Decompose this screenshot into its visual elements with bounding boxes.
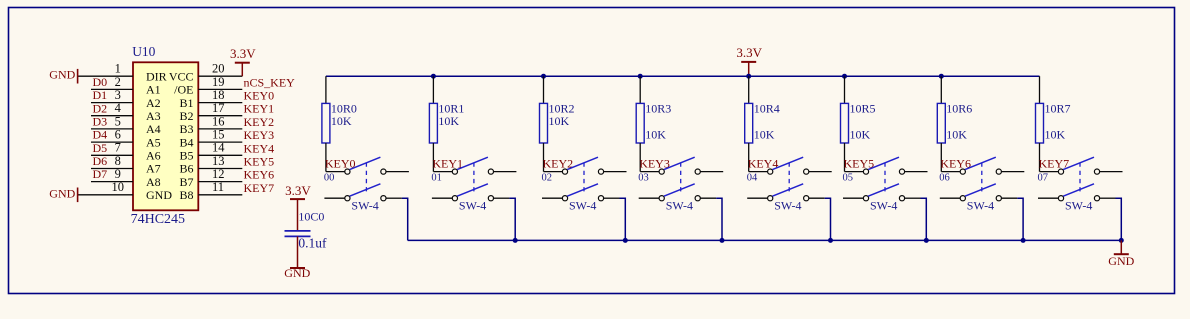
U10 pin 1 (DIR) wire + number [78,62,167,84]
svg-text:KEY2: KEY2 [244,115,275,129]
net label KEY7 at switch [1039,156,1070,170]
svg-text:KEY1: KEY1 [244,102,275,116]
comment SW-4 of switch S2 [569,198,596,212]
svg-text:10K: 10K [438,114,459,128]
switch S7 designator 07 [1038,173,1049,184]
ground GND port at capacitor C0 [284,236,310,280]
junction on ground bus at column 4 [828,238,833,243]
comment SW-4 of switch S1 [459,198,486,212]
wire: switch S3 to ground bus [716,198,722,240]
U10 pin 14 (B5) wire + number [179,141,242,163]
svg-text:KEY5: KEY5 [244,155,275,169]
net label KEY5 (at U10 pin 13) [244,155,275,169]
U10 pin 20 (VCC) wire + number [169,62,242,84]
junction on ground bus at column 2 [623,238,628,243]
svg-text:GND: GND [284,266,310,280]
svg-text:A7: A7 [146,162,161,176]
svg-text:DIR: DIR [146,69,167,83]
svg-text:9: 9 [115,167,121,181]
svg-text:3: 3 [115,88,121,102]
power 3.3V port at capacitor C0 [285,183,311,231]
resistor R2 (10R2) [540,76,548,171]
svg-text:3.3V: 3.3V [736,45,762,60]
svg-text:KEY6: KEY6 [244,168,275,182]
comment SW-4 of switch S6 [967,198,994,212]
value label 10K of R7 [1045,128,1066,142]
svg-text:D1: D1 [93,88,108,102]
comment SW-4 of switch S4 [774,198,801,212]
net label D4 [93,128,108,142]
ground GND port at bus right end [1108,240,1134,268]
value label 10K of R1 [438,114,459,128]
U10 pin 6 (A5) wire + number [91,128,161,150]
svg-text:SW-4: SW-4 [774,198,801,212]
svg-text:D7: D7 [93,167,108,181]
comment 74HC245 [131,212,185,227]
svg-text:SW-4: SW-4 [569,198,596,212]
svg-text:A3: A3 [146,109,161,123]
capacitor C0 (10C0) plates [285,231,311,237]
comment SW-4 of switch S0 [351,198,378,212]
svg-text:6: 6 [115,128,121,142]
svg-text:B8: B8 [179,188,193,202]
U10 pin 5 (A4) wire + number [91,114,161,136]
value label 10K of R5 [850,128,871,142]
designator label 10C0 [298,210,324,224]
net label nCS_KEY [244,75,296,89]
switch S5 (SW-4 key button) [843,157,928,201]
U10 pin 8 (A7) wire + number [91,154,161,176]
svg-text:7: 7 [115,141,121,155]
svg-text:18: 18 [212,88,225,102]
svg-text:10R7: 10R7 [1045,102,1071,116]
svg-text:13: 13 [212,154,225,168]
svg-text:04: 04 [747,173,758,184]
svg-text:10K: 10K [645,128,666,142]
svg-text:SW-4: SW-4 [967,198,994,212]
junction on rail at column 4 [746,74,751,79]
switch S2 (SW-4 key button) [542,157,627,201]
svg-text:1: 1 [115,62,121,76]
svg-text:B4: B4 [179,135,193,149]
svg-text:B3: B3 [179,122,193,136]
U10 pin 7 (A6) wire + number [91,141,161,163]
svg-text:16: 16 [212,114,225,128]
svg-text:A8: A8 [146,175,161,189]
svg-text:GND: GND [146,188,172,202]
net label D0 [93,75,108,89]
svg-text:D2: D2 [93,101,108,115]
switch S3 designator 03 [638,173,649,184]
switch S1 (SW-4 key button) [432,157,517,201]
designator label 10R6 [946,102,972,116]
svg-text:SW-4: SW-4 [870,198,897,212]
U10 pin 10 (GND) wire + number [78,180,173,202]
svg-text:A5: A5 [146,135,161,149]
junction on ground bus at column 5 [924,238,929,243]
svg-text:10: 10 [112,180,125,194]
junction on rail at column 1 [431,74,436,79]
U10 pin 3 (A2) wire + number [91,88,161,110]
power 3.3V port at U10 pin 20 [230,46,256,76]
U10 pin 17 (B2) wire + number [179,101,242,123]
wire: switch S0 to ground bus [402,198,408,240]
svg-text:KEY4: KEY4 [244,141,275,155]
net label D1 [93,88,108,102]
svg-text:SW-4: SW-4 [351,198,378,212]
comment SW-4 of switch S5 [870,198,897,212]
designator label 10R5 [850,102,876,116]
designator label 10R0 [331,102,357,116]
svg-text:3.3V: 3.3V [230,46,256,61]
ground GND port at U10 pin 1 [49,68,77,84]
U10 pin 13 (B6) wire + number [179,154,242,176]
svg-text:4: 4 [115,101,122,115]
designator label 10R3 [645,102,671,116]
net label KEY7 (at U10 pin 11) [244,181,275,195]
value label 0.1uf [298,236,327,251]
svg-text:D4: D4 [93,128,108,142]
svg-text:01: 01 [431,173,442,184]
svg-text:B7: B7 [179,175,193,189]
net label D7 [93,167,108,181]
svg-text:A2: A2 [146,96,161,110]
net label D6 [93,154,108,168]
svg-text:0.1uf: 0.1uf [298,236,327,251]
resistor R0 (10R0) [322,76,330,171]
svg-text:nCS_KEY: nCS_KEY [244,75,296,89]
svg-text:KEY7: KEY7 [244,181,275,195]
comment SW-4 of switch S7 [1065,198,1092,212]
svg-text:A1: A1 [146,83,161,97]
svg-text:B1: B1 [179,96,193,110]
value label 10K of R6 [946,128,967,142]
junction on ground bus at column 6 [1021,238,1026,243]
net label KEY0 at switch [325,156,356,170]
designator label 10R7 [1045,102,1071,116]
switch S0 designator 00 [324,173,335,184]
U10 pin 19 (/OE) wire + number [174,75,242,97]
switch S4 designator 04 [747,173,758,184]
junction on rail at column 5 [842,74,847,79]
value label 10K of R4 [754,128,775,142]
svg-text:19: 19 [212,75,225,89]
resistor R7 (10R7) [1036,76,1044,171]
svg-text:SW-4: SW-4 [1065,198,1092,212]
net label KEY6 at switch [940,156,971,170]
U10 pin 9 (A8) wire + number [91,167,161,189]
svg-text:2: 2 [115,75,121,89]
junction on rail at column 3 [638,74,643,79]
switch S0 (SW-4 key button) [324,157,409,201]
switch S7 (SW-4 key button) [1038,157,1123,201]
svg-text:8: 8 [115,154,121,168]
svg-text:10K: 10K [946,128,967,142]
net label KEY4 at switch [748,156,779,170]
switch S5 designator 05 [843,173,854,184]
net label KEY4 (at U10 pin 14) [244,141,275,155]
wire: switch S7 to ground bus [1116,198,1122,240]
wire: 3.3V top rail [326,75,1040,77]
U10 pin 12 (B7) wire + number [179,167,242,189]
svg-text:VCC: VCC [169,69,194,83]
U10 pin 11 (B8) wire + number [179,180,242,202]
net label KEY3 (at U10 pin 15) [244,128,275,142]
svg-text:10R3: 10R3 [645,102,671,116]
IC U10 74HC245 body [133,62,198,210]
svg-text:SW-4: SW-4 [666,198,693,212]
svg-text:10K: 10K [850,128,871,142]
value label 10K of R2 [549,114,570,128]
switch S1 designator 01 [431,173,442,184]
resistor R4 (10R4) [745,76,753,171]
svg-text:15: 15 [212,128,225,142]
switch S4 (SW-4 key button) [747,157,832,201]
svg-text:10R6: 10R6 [946,102,972,116]
svg-text:10C0: 10C0 [298,210,324,224]
svg-text:3.3V: 3.3V [285,183,311,198]
ground GND port at U10 pin 10 [49,186,77,202]
svg-text:02: 02 [542,173,553,184]
svg-text:GND: GND [49,68,75,82]
designator label 10R1 [438,102,464,116]
svg-text:11: 11 [212,180,224,194]
svg-text:GND: GND [1108,254,1134,268]
junction on rail at column 6 [939,74,944,79]
svg-text:07: 07 [1038,173,1049,184]
svg-text:SW-4: SW-4 [459,198,486,212]
wire: switch S6 to ground bus [1017,198,1023,240]
svg-text:10K: 10K [754,128,775,142]
net label KEY0 (at U10 pin 18) [244,89,275,103]
U10 pin 2 (A1) wire + number [91,75,161,97]
svg-text:U10: U10 [132,44,155,59]
switch S6 designator 06 [939,173,950,184]
U10 pin 4 (A3) wire + number [91,101,161,123]
svg-text:/OE: /OE [174,83,193,97]
net label KEY2 (at U10 pin 16) [244,115,275,129]
svg-text:A4: A4 [146,122,161,136]
designator label 10R2 [549,102,575,116]
net label D5 [93,141,108,155]
switch S3 (SW-4 key button) [639,157,724,201]
svg-text:5: 5 [115,114,121,128]
svg-text:B6: B6 [179,162,193,176]
value label 10K of R3 [645,128,666,142]
net label KEY6 (at U10 pin 12) [244,168,275,182]
switch S2 designator 02 [542,173,553,184]
resistor R3 (10R3) [636,76,644,171]
svg-text:KEY0: KEY0 [244,89,275,103]
U10 pin 16 (B3) wire + number [179,114,242,136]
svg-text:GND: GND [49,186,75,200]
junction on rail at column 2 [541,74,546,79]
svg-text:17: 17 [212,101,225,115]
power 3.3V port on rail [736,45,762,76]
resistor R1 (10R1) [429,76,437,171]
svg-text:B5: B5 [179,149,193,163]
net label KEY2 at switch [543,156,574,170]
svg-text:74HC245: 74HC245 [131,212,185,227]
svg-text:20: 20 [212,62,225,76]
svg-text:03: 03 [638,173,649,184]
net label KEY3 at switch [639,156,670,170]
svg-text:D6: D6 [93,154,108,168]
svg-text:D5: D5 [93,141,108,155]
junction on ground bus at column 3 [720,238,725,243]
net label D2 [93,101,108,115]
svg-text:A6: A6 [146,149,161,163]
svg-text:10K: 10K [1045,128,1066,142]
designator label 10R4 [754,102,780,116]
U10 pin 18 (B1) wire + number [179,88,242,110]
svg-text:10R4: 10R4 [754,102,780,116]
resistor R6 (10R6) [937,76,945,171]
switch S6 (SW-4 key button) [940,157,1025,201]
svg-text:10K: 10K [331,114,352,128]
svg-text:12: 12 [212,167,225,181]
svg-text:B2: B2 [179,109,193,123]
wire: switch S5 to ground bus [921,198,927,240]
svg-text:14: 14 [212,141,225,155]
wire: switch S4 to ground bus [825,198,831,240]
svg-text:00: 00 [324,173,335,184]
svg-text:10R5: 10R5 [850,102,876,116]
junction on ground bus at column 1 [513,238,518,243]
svg-text:KEY3: KEY3 [244,128,275,142]
U10 pin 15 (B4) wire + number [179,128,242,150]
net label D3 [93,115,108,129]
net label KEY5 at switch [844,156,875,170]
wire: bottom ground bus [408,239,1122,241]
junction at ground bus right end [1119,238,1124,243]
net label KEY1 (at U10 pin 17) [244,102,275,116]
svg-text:D0: D0 [93,75,108,89]
designator U10 [132,44,155,59]
comment SW-4 of switch S3 [666,198,693,212]
resistor R5 (10R5) [841,76,849,171]
svg-text:05: 05 [843,173,854,184]
wire: switch S2 to ground bus [620,198,626,240]
value label 10K of R0 [331,114,352,128]
wire: switch S1 to ground bus [509,198,515,240]
net label KEY1 at switch [432,156,463,170]
svg-text:D3: D3 [93,115,108,129]
svg-text:06: 06 [939,173,950,184]
svg-text:10K: 10K [549,114,570,128]
